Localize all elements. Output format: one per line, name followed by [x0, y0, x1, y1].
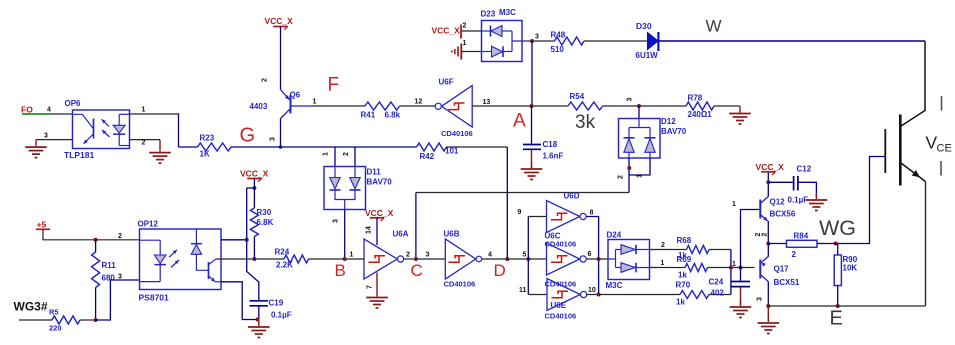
svg-text:3: 3	[535, 34, 539, 41]
svg-text:BCX56: BCX56	[770, 210, 796, 219]
svg-text:VCC_X: VCC_X	[365, 208, 394, 218]
svg-text:3: 3	[333, 219, 340, 223]
wire D11 pin 2 stub	[354, 147, 356, 167]
wire node B row	[216, 258, 285, 260]
wire Q6 collector down to G line	[280, 119, 282, 148]
svg-text:R84: R84	[794, 232, 809, 241]
wire OP6 pin 1	[130, 113, 179, 115]
resistor R24	[284, 255, 309, 263]
svg-text:C24: C24	[709, 278, 724, 287]
svg-text:FO: FO	[21, 105, 33, 115]
svg-text:VCC_X: VCC_X	[756, 162, 785, 172]
inverter U6A	[364, 239, 397, 279]
wire resistor tie vertical	[730, 250, 732, 295]
wire bus to U6D input	[528, 216, 546, 218]
svg-text:D11: D11	[367, 168, 382, 177]
wire junction to OP12 pin 3	[96, 280, 140, 320]
svg-text:2: 2	[343, 152, 350, 156]
wire R78 to ground	[714, 105, 740, 107]
diode pack D12 body	[619, 119, 661, 159]
wire U6D output	[586, 217, 598, 295]
optocoupler OP12 body	[140, 229, 222, 290]
svg-text:240Ω1: 240Ω1	[688, 110, 713, 119]
wire to R23	[179, 146, 198, 148]
svg-text:Q12: Q12	[770, 198, 786, 207]
svg-text:4: 4	[47, 107, 51, 114]
svg-text:1K: 1K	[200, 150, 210, 159]
OP12 light arrows	[169, 250, 177, 257]
resistor R5	[52, 316, 80, 324]
junction bus	[526, 257, 530, 261]
svg-text:2: 2	[661, 242, 665, 249]
wire R24 to U6A	[309, 258, 365, 260]
resistor R54	[568, 102, 603, 110]
svg-text:A: A	[513, 111, 526, 132]
svg-text:WG3#: WG3#	[14, 300, 48, 314]
svg-text:B: B	[335, 261, 346, 280]
svg-text:1.6nF: 1.6nF	[543, 152, 564, 161]
svg-text:1: 1	[732, 201, 736, 208]
svg-text:D30: D30	[636, 21, 652, 31]
resistor R41	[365, 102, 400, 110]
wire D11 pin 3 to node B	[344, 210, 346, 260]
junction node B	[343, 257, 347, 261]
resistor R70	[680, 291, 709, 299]
wire R42 down to node D	[506, 147, 508, 259]
IGBT body bar	[899, 115, 902, 186]
junction U6E tie	[597, 293, 601, 297]
svg-text:220: 220	[49, 324, 62, 333]
junction R90 bottom	[836, 304, 840, 308]
svg-text:14: 14	[366, 226, 373, 234]
svg-text:C12: C12	[797, 165, 812, 174]
wire emitter node to R84	[768, 243, 786, 245]
svg-text:CD40106: CD40106	[545, 312, 577, 321]
wire U6C output to D24	[586, 258, 608, 260]
svg-text:M3C: M3C	[499, 8, 516, 17]
svg-text:9: 9	[518, 209, 522, 216]
svg-text:OP6: OP6	[65, 99, 82, 108]
svg-text:R78: R78	[688, 94, 703, 103]
junction R11 top	[94, 238, 98, 242]
wire base to Q12	[741, 210, 761, 268]
svg-text:7: 7	[367, 285, 374, 289]
wire U6A output node C	[404, 258, 416, 260]
capacitor C19	[250, 300, 269, 302]
OP12 LED	[140, 240, 161, 281]
svg-text:F: F	[328, 75, 340, 96]
svg-text:D: D	[494, 261, 506, 280]
svg-text:6U1W: 6U1W	[636, 51, 659, 60]
wire D12 pin 2 down	[628, 158, 630, 193]
wire U6B output node D	[482, 258, 508, 260]
svg-text:R48: R48	[551, 31, 566, 40]
inverter U6B	[445, 239, 476, 279]
junction resistor tie	[729, 266, 733, 270]
svg-text:R42: R42	[420, 152, 435, 161]
IGBT emitter with arrow	[900, 163, 925, 182]
wire U6E output to R70	[587, 294, 680, 296]
diode pack D11 body	[324, 167, 366, 210]
svg-text:3: 3	[118, 274, 122, 281]
ground at OP6 pin 2	[159, 140, 161, 152]
wire vertical VCC feed / C19 feed	[247, 188, 259, 301]
svg-text:R41: R41	[361, 111, 376, 120]
resistor R69	[685, 264, 708, 272]
OP12 output transistor	[208, 262, 210, 279]
svg-text:C19: C19	[269, 299, 284, 308]
wire FO input (green segment)	[22, 113, 50, 115]
svg-text:1: 1	[323, 152, 330, 156]
junction R30 bottom	[252, 257, 256, 261]
junction collector pin	[245, 238, 249, 242]
svg-text:2.2K: 2.2K	[276, 261, 293, 270]
svg-text:BCX51: BCX51	[774, 278, 800, 287]
OP6 phototransistor	[73, 114, 94, 128]
wire R48 to D30	[584, 40, 648, 42]
resistor R90 (box)	[837, 244, 839, 256]
svg-text:C: C	[411, 261, 423, 280]
VCE probe marks	[941, 96, 943, 111]
transistor Q6	[290, 95, 292, 114]
svg-text:4403: 4403	[250, 102, 268, 111]
inverter U6C	[547, 243, 580, 275]
wire pin1 down to R23	[178, 113, 180, 147]
wire OP12 emitter to ground	[221, 282, 259, 320]
wire D24 pin 2 to R68	[650, 249, 687, 251]
svg-text:D23: D23	[481, 10, 496, 19]
svg-text:2: 2	[792, 250, 797, 259]
svg-text:2: 2	[262, 78, 269, 82]
wire R68 right	[709, 249, 731, 251]
svg-text:2: 2	[618, 175, 625, 179]
wire Q12 collector to VCC	[767, 172, 769, 197]
svg-text:U6F: U6F	[439, 78, 454, 87]
ground at D23 pin 1 (rotated)	[460, 44, 462, 60]
wire C19 to ground	[258, 306, 260, 320]
svg-text:10: 10	[588, 287, 596, 294]
wire VCC to Q6 emitter	[280, 27, 282, 90]
svg-text:10K: 10K	[843, 264, 858, 273]
wire node C link horizontal	[416, 192, 629, 194]
ground below Q17	[767, 306, 769, 322]
resistor R68	[687, 246, 710, 254]
wire A to C18	[531, 106, 533, 144]
svg-text:510: 510	[551, 45, 565, 54]
svg-text:1k: 1k	[676, 298, 685, 307]
resistor R23	[198, 143, 231, 151]
svg-text:R68: R68	[677, 236, 692, 245]
ground at R78	[739, 106, 741, 113]
wire +5 to OP12 pin 2	[43, 229, 140, 240]
svg-text:2: 2	[142, 140, 146, 147]
svg-text:2: 2	[118, 233, 122, 240]
inverter U6D	[547, 201, 580, 233]
wire Q12 emitter down	[767, 221, 769, 244]
wire ground to D23 pin 1	[461, 51, 481, 53]
svg-text:3: 3	[426, 252, 430, 259]
svg-text:U6D: U6D	[564, 192, 580, 201]
diode pack D23 body	[482, 21, 523, 62]
junction U6D tie	[597, 257, 601, 261]
junction Q17 collector	[766, 304, 770, 308]
resistor R30	[253, 179, 255, 209]
svg-text:4: 4	[488, 252, 492, 259]
svg-text:R11: R11	[102, 261, 117, 270]
svg-text:WG: WG	[819, 216, 856, 240]
svg-text:5: 5	[523, 252, 527, 259]
svg-text:VCC_X: VCC_X	[265, 16, 294, 26]
wire U6A pin 7 to ground	[376, 273, 378, 291]
resistor R78	[686, 102, 714, 110]
svg-text:3: 3	[757, 297, 764, 301]
svg-text:CE: CE	[937, 143, 952, 155]
svg-text:R5: R5	[49, 308, 59, 317]
svg-text:BAV70: BAV70	[661, 127, 687, 136]
resistor R84 (box)	[787, 240, 818, 247]
wire R54 to R78	[603, 105, 687, 107]
junction node A	[530, 104, 534, 108]
wire bus to U6E input	[528, 294, 547, 296]
wire G net	[231, 146, 417, 148]
ground at OP6 pin 3	[35, 140, 37, 147]
wire R84 to WG node	[817, 243, 836, 245]
svg-text:2: 2	[406, 252, 410, 259]
IGBT gate bar	[884, 129, 886, 173]
svg-text:2: 2	[463, 23, 467, 30]
capacitor C24	[740, 268, 742, 282]
wire D23 pin 3 out	[522, 40, 536, 42]
wire OP6 pin 3 to ground	[36, 139, 73, 141]
D24 internals	[608, 250, 621, 268]
diode pack D24 body	[608, 240, 650, 280]
wire OP12 collector pin to VCC	[221, 239, 247, 241]
transistor Q12	[759, 200, 761, 219]
svg-text:CD40106: CD40106	[545, 240, 577, 249]
wire VCC to U6A pin 14	[376, 218, 378, 245]
junction node D	[505, 257, 509, 261]
svg-text:U6A: U6A	[393, 230, 409, 239]
wire D23 down to node A	[531, 41, 533, 106]
junction node C	[414, 257, 418, 261]
junction D23 output	[530, 39, 534, 43]
svg-text:CD40106: CD40106	[545, 280, 577, 289]
svg-text:BAV70: BAV70	[367, 178, 393, 187]
OP12 photodiode	[195, 229, 197, 244]
D23 inner junction wire	[512, 31, 522, 52]
wire R70 right	[709, 294, 731, 296]
resistor R11	[95, 240, 97, 252]
wire U6F input to node A	[472, 105, 531, 107]
svg-text:3k: 3k	[575, 112, 596, 133]
svg-text:2: 2	[762, 233, 769, 237]
svg-text:W: W	[706, 17, 722, 36]
svg-text:6: 6	[588, 251, 592, 258]
junction D12 pin 2	[627, 166, 631, 170]
svg-text:C18: C18	[543, 140, 558, 149]
svg-text:3: 3	[627, 98, 634, 102]
svg-text:8: 8	[590, 210, 594, 217]
wire C24 to ground	[740, 287, 742, 306]
svg-text:PS8701: PS8701	[139, 293, 170, 303]
svg-text:1: 1	[350, 252, 354, 259]
svg-text:1: 1	[313, 99, 317, 106]
svg-text:6.8K: 6.8K	[257, 218, 274, 227]
svg-text:R30: R30	[257, 208, 272, 217]
svg-text:U6E: U6E	[551, 301, 567, 310]
wire OP6 pin 2 to ground	[130, 139, 161, 141]
wire WG3# to R5	[19, 319, 52, 321]
svg-text:Q6: Q6	[290, 91, 301, 100]
wire D11 pin 1 stub	[334, 147, 336, 167]
D23 diode a (points left)	[482, 30, 491, 32]
svg-text:OP12: OP12	[138, 220, 159, 229]
svg-text:1: 1	[142, 107, 146, 114]
diode D30	[648, 33, 659, 50]
wire emitter row E	[768, 305, 925, 307]
svg-text:0.1µF: 0.1µF	[788, 196, 809, 205]
IGBT collector	[900, 41, 925, 127]
junction VCC stem	[252, 186, 256, 190]
wire R41 to U6F output	[400, 105, 436, 107]
D11 internals	[335, 167, 355, 178]
capacitor C18	[523, 144, 541, 146]
junction C19 ground	[256, 318, 260, 322]
resistor R42	[417, 143, 447, 151]
wire node C link vertical	[415, 193, 417, 260]
wire WG to IGBT gate	[836, 157, 886, 244]
svg-text:101: 101	[445, 147, 459, 156]
junction C12 tap	[766, 180, 770, 184]
svg-text:U6B: U6B	[444, 230, 460, 239]
wire A to R54	[532, 105, 569, 107]
optocoupler OP6 body	[73, 110, 130, 149]
transistor Q17	[759, 260, 761, 279]
svg-text:+5: +5	[37, 220, 47, 230]
svg-text:G: G	[240, 125, 256, 147]
wire D12 pin 1 bend	[629, 158, 650, 175]
wire bus to U6C input	[528, 258, 546, 260]
svg-text:R23: R23	[200, 134, 215, 143]
svg-text:13: 13	[483, 99, 491, 106]
svg-text:E: E	[830, 308, 843, 330]
svg-text:1: 1	[661, 260, 665, 267]
ground at C24	[740, 300, 742, 307]
svg-text:0.1µF: 0.1µF	[271, 311, 292, 320]
svg-text:680: 680	[102, 274, 116, 283]
wire FO to OP6 pin 4	[50, 113, 73, 115]
D23 diode b (points right)	[482, 51, 492, 53]
OP6 LED	[118, 114, 120, 145]
inverter U6E	[547, 279, 580, 311]
wire Q17 emitter up	[767, 244, 769, 257]
svg-text:CD40106: CD40106	[444, 280, 476, 289]
wire W net	[658, 40, 925, 42]
svg-text:R69: R69	[677, 255, 692, 264]
junction base node	[739, 266, 743, 270]
wire F net	[311, 105, 365, 107]
ground at U6A pin 7	[376, 291, 378, 297]
svg-text:R24: R24	[275, 248, 290, 257]
wire Q17 collector down	[767, 282, 769, 307]
svg-text:CD40106: CD40106	[441, 129, 473, 138]
ground below C19	[258, 320, 260, 327]
svg-text:D12: D12	[661, 117, 676, 126]
ground at C18	[531, 162, 533, 169]
wire D12 pin 3 stub	[638, 106, 640, 119]
svg-text:11: 11	[519, 287, 527, 294]
svg-text:402: 402	[711, 289, 725, 298]
junction emitter node	[766, 242, 770, 246]
svg-text:12: 12	[415, 99, 423, 106]
wire D24 pin 1 to R69	[650, 267, 686, 269]
svg-text:R70: R70	[676, 281, 691, 290]
junction D12 tap	[637, 104, 641, 108]
svg-text:1: 1	[637, 174, 644, 178]
capacitor C12	[768, 181, 792, 183]
wire R42 to node D	[447, 146, 508, 148]
svg-text:3: 3	[44, 133, 48, 140]
svg-text:R54: R54	[570, 92, 585, 101]
svg-text:M3C: M3C	[606, 281, 623, 290]
svg-text:VCC_X: VCC_X	[240, 169, 269, 179]
svg-text:3: 3	[270, 137, 277, 141]
wire D to input bus	[507, 258, 528, 260]
resistor R48	[536, 40, 555, 42]
wire C to U6B input	[416, 258, 445, 260]
OP6 light arrows	[102, 119, 110, 126]
D12 internals	[629, 119, 650, 138]
svg-text:1k: 1k	[678, 271, 687, 280]
wire C18 to ground	[531, 149, 533, 168]
wire R5 to junction	[80, 319, 96, 321]
svg-text:1: 1	[732, 261, 736, 268]
svg-text:Q17: Q17	[774, 265, 790, 274]
svg-text:1: 1	[463, 40, 467, 47]
wire R69 to base junction	[708, 267, 755, 269]
svg-text:D24: D24	[607, 231, 622, 240]
wire input bus vertical	[527, 217, 529, 295]
svg-text:6.8k: 6.8k	[385, 111, 401, 120]
wire VCC to D23 pin 2	[461, 30, 482, 32]
inverter U6F	[435, 103, 441, 109]
wire IGBT emitter down	[925, 182, 927, 307]
svg-text:VCC_X: VCC_X	[432, 26, 461, 36]
svg-text:TLP181: TLP181	[64, 150, 95, 160]
junction WG node	[834, 242, 838, 246]
junction R11 bottom	[94, 318, 98, 322]
ground at C12	[815, 193, 817, 199]
